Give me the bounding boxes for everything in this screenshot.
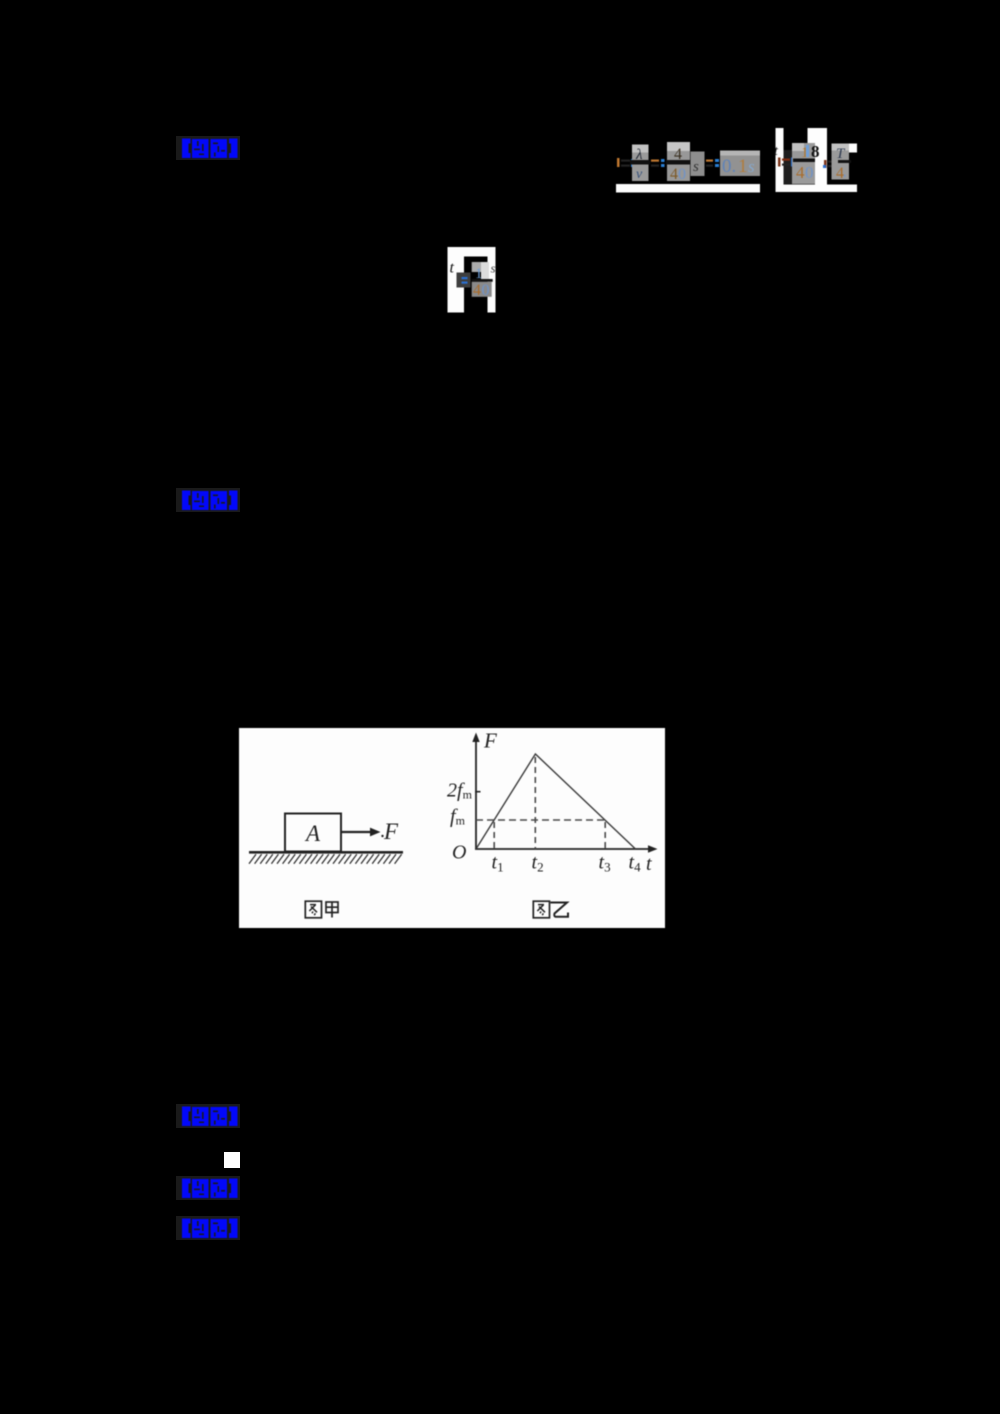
label dianping 点评: [176, 488, 240, 512]
svg-text:1: 1: [738, 156, 748, 177]
svg-text:s: s: [491, 261, 496, 276]
caption 图乙: [533, 901, 568, 918]
fm dashed level line: [476, 819, 606, 821]
x axis t: [475, 848, 650, 850]
svg-text:8: 8: [811, 142, 820, 161]
svg-text:4: 4: [796, 163, 805, 182]
formula image F1: T=lambda/v=4/40s=0.1s: [610, 128, 770, 196]
ground hatching: [249, 854, 402, 864]
dashed vertical t1: [493, 822, 495, 849]
svg-text:s: s: [748, 157, 755, 176]
label fenxi 分析: [176, 1216, 240, 1240]
ground line: [249, 851, 403, 854]
svg-text:F: F: [383, 819, 399, 844]
y axis F: [475, 739, 477, 850]
small white inline image square: [224, 1152, 240, 1168]
svg-text:0.: 0.: [722, 156, 736, 177]
label zhuanti 专题: [176, 1176, 240, 1200]
label kaodian 考点: [176, 1104, 240, 1128]
svg-text:s: s: [693, 159, 699, 175]
svg-text:0: 0: [678, 166, 686, 183]
formula image F3: t=1/40s: [447, 247, 497, 313]
dashed vertical t2: [534, 757, 536, 849]
dashed vertical t3: [604, 822, 606, 849]
figure box (white) containing 图甲 and 图乙: [239, 728, 665, 928]
svg-text:O: O: [452, 842, 466, 864]
triangle force curve: [476, 754, 636, 849]
block A: [285, 814, 341, 852]
svg-text:t: t: [450, 260, 455, 277]
svg-text:F: F: [483, 729, 497, 753]
force arrow: [342, 831, 372, 833]
svg-text:0: 0: [805, 163, 814, 182]
svg-text:0: 0: [482, 282, 490, 299]
2fm tick and label: [475, 791, 481, 793]
label .F: [381, 835, 383, 837]
caption 图甲: [305, 901, 338, 918]
svg-text:,: ,: [843, 164, 846, 179]
svg-text:t: t: [646, 853, 652, 875]
svg-text:4: 4: [473, 282, 481, 299]
formula image F2: t1=1/40s=T/4: [770, 124, 870, 196]
svg-text:v: v: [636, 167, 643, 182]
svg-text:4: 4: [670, 166, 678, 183]
svg-text:A: A: [304, 821, 321, 846]
label jieda 解答: [176, 136, 240, 160]
